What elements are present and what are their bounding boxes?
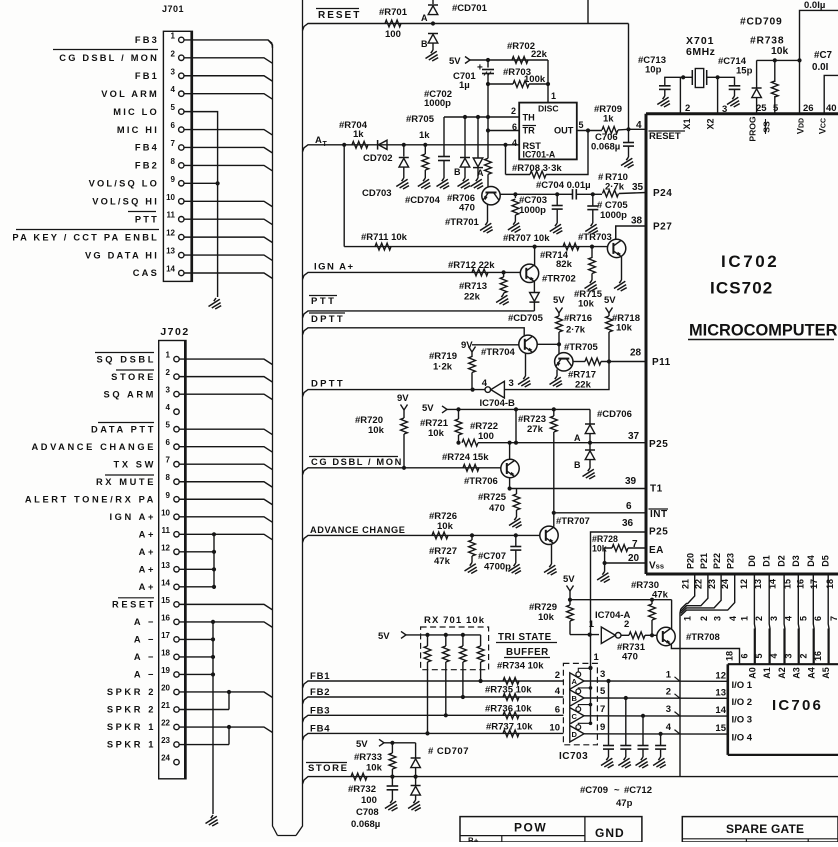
transistor TR705 [555,353,573,371]
junction R721/R722 [456,441,460,445]
svg-text:11: 11 [162,526,171,535]
table POW/GND outline [460,817,642,842]
svg-text:#CD701: #CD701 [452,3,488,14]
wire from sheet top to RESET [587,0,589,24]
svg-text:470: 470 [622,652,638,663]
wire C704 to C705 [576,193,593,195]
wire J701 pin 9 to ground bus [184,182,218,184]
svg-text:P24: P24 [653,188,672,199]
svg-text:28: 28 [630,348,642,359]
wire J701 pin 7 to bus [184,147,273,153]
junction A+ pin 13 [212,567,216,571]
junction SPKR1 [227,725,231,729]
wire buffer C output [584,715,728,717]
svg-text:B: B [572,694,578,703]
svg-text:GND: GND [595,826,625,840]
junction 5V/C701 [486,58,490,62]
junction R718/P11 [607,359,611,363]
svg-text:A −: A − [134,670,156,680]
wire TR704 collector to TR705 base node [537,343,559,345]
ground R715 [585,280,598,291]
wire C705 node down [592,194,594,228]
resistor R703 [513,81,529,88]
wire J702 pin 6 to bus [179,447,272,453]
svg-text:47k: 47k [652,590,669,601]
svg-text:470: 470 [459,203,475,214]
wire TR705 base [558,344,560,354]
junction C707 [514,533,518,537]
svg-text:#R711 10k: #R711 10k [361,232,408,243]
svg-text:VOL/SQ LO: VOL/SQ LO [89,179,159,189]
svg-text:#R724 15k: #R724 15k [442,452,489,463]
svg-text:SQ DSBL: SQ DSBL [96,354,156,364]
svg-text:#R712 22k: #R712 22k [448,260,495,271]
svg-text:35: 35 [632,182,644,193]
resistor R711 [375,243,391,250]
pin 3 stub X2 [717,77,719,113]
wire TR705 collector to P11 [573,361,585,363]
wire J701 pin 10 to bus [184,201,273,207]
IC702 left edge [645,114,648,574]
J702 pin 8 circle [174,479,179,484]
bundle tap net 2 [675,694,681,699]
svg-text:D0: D0 [747,555,757,567]
svg-text:#R738: #R738 [750,36,784,47]
wire TR708 collector from 5V [671,600,673,629]
J701 pin 2 circle [179,55,184,60]
RX701 resistor c [461,633,465,637]
supply 5V arrow R718 [606,308,613,314]
svg-text:20: 20 [161,683,170,692]
svg-text:6: 6 [555,704,560,715]
RX701 resistor a [425,633,429,637]
wire J702 pin 8 to bus [179,482,272,488]
svg-text:#TR707: #TR707 [556,516,590,527]
supply 5V arrow R716 [556,308,563,314]
svg-text:SPKR 2: SPKR 2 [107,705,156,715]
svg-text:RESET: RESET [318,10,361,21]
svg-text:#C707: #C707 [478,551,506,562]
resistor R718 [608,313,610,316]
PTT label overline [309,295,337,297]
J702 pin 22 circle [174,724,179,729]
svg-text:P20: P20 [686,553,696,569]
svg-text:I/O 3: I/O 3 [732,715,753,726]
wire R703 left [488,83,513,85]
wire T1 row [510,488,646,490]
svg-text:0.068µ: 0.068µ [351,819,380,830]
J702 pin 5 label overline [98,422,154,424]
connector J701 right edge thick [190,31,192,281]
svg-text:#R708 3·3k: #R708 3·3k [512,163,562,174]
wire TR702 emitter down [533,281,535,292]
svg-text:22k: 22k [531,49,548,60]
J702 pin 11 circle [174,532,179,537]
wire J702 pin 10 to bus [179,517,272,523]
connector J702 right edge thick [184,341,186,779]
svg-text:~: ~ [614,785,620,796]
J702 pin 18 circle [174,654,179,659]
capacitor C703 [556,194,558,205]
svg-text:FB3: FB3 [135,35,159,45]
J702 pin 5 circle [174,427,179,432]
wire J702 pin 5 to bus [179,429,272,435]
svg-text:7: 7 [166,456,171,465]
ground C702 [437,178,450,189]
svg-text:9V: 9V [397,393,409,404]
J701 pin 12 label overline [16,229,159,231]
connector J701 body [163,31,192,281]
wire DPTT horizontal [311,389,485,391]
junction R727 [470,533,474,537]
wire TR701 output [500,193,515,195]
capacitor C706 [628,129,630,142]
resistor R710 [593,193,602,195]
pin SS overline [765,119,767,134]
svg-text:1: 1 [594,652,600,663]
svg-text:C: C [572,712,578,721]
svg-text:INT: INT [650,509,668,520]
svg-text:5: 5 [600,686,606,697]
svg-text:19: 19 [161,666,170,675]
supply 5V arrow R721 [442,406,447,413]
wire TR pin6 [488,130,519,132]
J702 pin 1 circle [174,356,179,361]
ground C709 [601,757,614,768]
ground R705 [418,178,431,189]
wire 5V to R702 [488,59,548,61]
junction R707 [513,192,517,196]
wire AT tap down to R711 [343,145,345,247]
svg-text:7: 7 [171,139,176,148]
svg-text:#R735 10k: #R735 10k [485,685,532,696]
svg-text:10k: 10k [366,763,383,774]
svg-text:A1: A1 [762,667,772,679]
svg-text:P25: P25 [649,527,668,538]
capacitor C714 [718,77,735,86]
svg-text:A5: A5 [821,667,831,679]
svg-text:22k: 22k [575,380,592,391]
supply 5V arrow RX701 [401,631,406,638]
resistor R730 [651,600,653,604]
resistor R716 [558,313,560,316]
resistor R708 [506,174,531,176]
svg-text:3: 3 [666,704,671,715]
svg-text:PTT: PTT [135,214,159,224]
J701 pin 1 circle [179,37,184,42]
svg-text:6: 6 [626,501,632,512]
svg-text:1000p: 1000p [600,210,627,221]
svg-text:D3: D3 [791,555,801,567]
junction TR702 collector [533,245,537,249]
svg-text:2: 2 [166,368,171,377]
svg-text:14: 14 [166,264,175,273]
svg-text:9: 9 [166,491,171,500]
svg-text:37: 37 [628,431,640,442]
wire J702 pin 11 to bus [179,534,272,540]
svg-text:#TR705: #TR705 [564,342,599,353]
svg-text:OUT: OUT [554,126,574,136]
svg-text:0.068µ: 0.068µ [591,142,620,153]
ground C705 [585,223,598,234]
ground C7011 [636,757,649,768]
buffer B enable junction [589,686,593,690]
wire CD709/R738 top [757,59,800,61]
svg-text:#R737 10k: #R737 10k [486,722,533,733]
wire D6 partial right edge [837,574,838,664]
table SPARE GATE header line [682,838,838,840]
svg-text:IC704-B: IC704-B [480,398,516,409]
svg-text:1µ: 1µ [459,80,470,91]
wire J702 pin 3 to bus [179,394,272,400]
svg-text:#CD705: #CD705 [508,313,544,324]
junction 5V tie top [514,407,518,411]
svg-text:9: 9 [600,722,605,733]
capacitor C701 electrolytic [487,60,489,68]
ground J702 A- [206,815,219,826]
wire 5V row [447,408,590,410]
SPKR2 tie vertical [228,692,230,710]
wire J702 pin 16 to bus [179,622,272,628]
svg-text:TH: TH [523,113,536,123]
wire 5V node R729/R730 [569,591,571,605]
wire J702 pin 13 A+ [179,568,214,570]
wire IC704-B input from P11 node [504,362,609,390]
wire FB3 from bus [303,715,312,722]
svg-text:2·7k: 2·7k [566,325,586,336]
wire to C703 [515,193,557,195]
svg-text:9: 9 [171,175,176,184]
table SPARE GATE divider 2 [807,839,809,842]
buffer A enable stub [578,668,590,672]
svg-text:#TR702: #TR702 [542,274,576,285]
resistor R737 [503,730,519,737]
wire D4 to IC706 [812,574,815,664]
svg-text:3: 3 [713,616,723,621]
wire ADVANCE horizontal [311,534,540,536]
resistor R707 [514,194,516,198]
IC703 dashed box [563,663,597,744]
svg-text:SPARE GATE: SPARE GATE [726,822,804,836]
IC706 top pin 2 stub [812,629,814,665]
J702 pin 15 label overline [118,597,154,599]
svg-text:# CD707: # CD707 [428,746,469,757]
svg-text:IC703: IC703 [559,751,588,762]
ground J701 mic/vol-sq common [209,298,222,309]
svg-text:25: 25 [756,103,767,114]
svg-text:VOL ARM: VOL ARM [101,89,159,99]
wire TR704 emitter to ground [525,353,527,376]
bundle tap net 4 [675,730,681,735]
svg-text:4: 4 [512,138,517,148]
svg-text:2·7k: 2·7k [605,182,625,193]
wire FB4 horizontal [311,732,563,734]
wire D2 to IC706 [783,574,786,664]
RX701 resistor d [480,635,482,646]
resistor R717 [585,358,601,365]
table POW subdivider [460,835,585,837]
diode CD707-B [415,777,417,785]
svg-text:5V: 5V [378,631,390,642]
wire CD701 stub to sheet top [432,0,434,4]
resistor R732 [351,773,367,780]
svg-text:STORE: STORE [111,372,156,382]
J702 pin 9 circle [174,497,179,502]
ground C714 [727,96,740,107]
junction TH node [486,115,490,119]
wire TR707 collector [553,513,555,527]
J701 pin 10 circle [179,199,184,204]
diode CD706-A [589,409,591,423]
junction 5V R729 [568,598,572,602]
resistor R733 [390,741,394,745]
junction R738 top [773,58,777,62]
bundle vertical net1-4 [679,615,681,776]
svg-text:#TR708: #TR708 [686,632,720,643]
wire P23 to bundle [681,574,735,616]
svg-text:4: 4 [482,378,488,389]
svg-text:10k: 10k [538,612,555,623]
svg-text:5: 5 [579,120,584,130]
svg-text:15p: 15p [736,66,753,77]
wire J702 pin 20 to bus [179,692,272,698]
wire CG horizontal [311,467,501,469]
ground Vss [597,572,610,583]
svg-text:4: 4 [171,85,176,94]
resistor R721 [458,409,460,419]
junction IC703 enable top [588,666,592,670]
wire PTT from bus [303,311,312,318]
IC706 top pin 6 stub [753,629,755,665]
svg-text:0.0Iµ: 0.0Iµ [804,0,825,11]
J702 pin 20 circle [174,689,179,694]
svg-text:24: 24 [161,754,170,763]
wire D5 to IC706 [827,574,830,664]
wire TR706 emitter to T1 [509,477,511,489]
junction J701 pin9/gnd [216,181,220,185]
wire 5V to R722 tie [515,409,517,442]
svg-text:#R719: #R719 [429,351,457,362]
resistor R719 [471,352,473,357]
svg-text:A −: A − [134,652,156,662]
junction FB1/RX701 [479,679,483,683]
svg-text:4700p: 4700p [484,562,511,573]
junction R720/CG [402,466,406,470]
svg-text:P22: P22 [712,553,722,569]
table SPARE GATE outline [682,817,838,842]
junction Vss/R728 [603,561,607,565]
wire FB2 horizontal [311,696,563,698]
svg-text:6MHz: 6MHz [686,46,715,58]
ground R713 [496,294,509,305]
svg-text:5: 5 [798,616,808,621]
MICROCOMPUTER underline [688,339,834,341]
svg-text:38: 38 [631,216,643,227]
wire RST pin4 node [505,145,507,175]
svg-text:BUFFER: BUFFER [506,647,549,658]
svg-text:RX MUTE: RX MUTE [96,477,156,487]
wire TR708 emitter to IC706 pin18 [671,645,739,665]
svg-text:#CD704: #CD704 [405,195,441,206]
svg-text:47k: 47k [434,556,451,567]
ground C7012 [653,757,666,768]
inverter IC704-A [601,627,615,644]
wire RESET from bus [303,24,312,31]
svg-text:A: A [421,13,428,23]
IC706 body bottom edge [728,754,838,756]
ground R725 [509,517,522,528]
J702 pin 14 circle [174,584,179,589]
svg-text:A+: A+ [139,565,156,575]
svg-text:5V: 5V [553,295,565,306]
ground CD707-B [408,800,421,811]
svg-text:39: 39 [625,476,637,487]
svg-text:1: 1 [666,669,672,680]
svg-text:5: 5 [773,103,779,114]
resistor R722 [462,439,478,446]
svg-text:#R725: #R725 [478,492,507,503]
ground CD704-A [471,178,484,189]
J702 pin 2 circle [174,374,179,379]
svg-text:5V: 5V [563,574,575,585]
junction R730/R731 [650,633,654,637]
svg-text:EA: EA [649,545,664,556]
svg-text:VOL/SQ HI: VOL/SQ HI [92,196,159,206]
transistor TR702 [520,264,538,282]
svg-text:#C7: #C7 [814,50,833,61]
svg-text:4: 4 [666,722,672,733]
svg-text:CG DSBL / MON: CG DSBL / MON [311,457,403,467]
capacitor C704 series [572,189,574,199]
capacitor C7011 [642,716,644,746]
RX701 dashed box [421,627,489,670]
wire P27 pin38 [616,226,646,240]
wire Vss to ground [604,563,606,572]
svg-text:TR: TR [523,126,536,136]
wire TR703 emitter to ground [621,257,623,281]
svg-text:ICS702: ICS702 [710,279,773,298]
junction pin4/C706 [626,127,630,131]
harness bus left line [268,40,278,836]
capacitor C713 [665,77,683,86]
svg-text:RX 701 10k: RX 701 10k [424,615,485,626]
svg-text:2: 2 [685,103,690,114]
J702 pin 21 circle [174,707,179,712]
svg-text:100: 100 [361,795,377,806]
junction FB2/RX701 [461,695,465,699]
junction A+ pin 12 [212,550,216,554]
capacitor C7010 [625,698,627,746]
svg-text:#C704 0.01µ: #C704 0.01µ [536,180,591,191]
svg-text:17: 17 [161,631,170,640]
junction TR node [486,128,490,132]
wire AT from bus [303,145,312,152]
svg-text:#R734 10k: #R734 10k [497,661,544,672]
junction R733/STORE [390,775,394,779]
wire J702 pin 1 to bus [179,359,272,365]
resistor R726 [432,532,448,539]
wire P21 to bundle [681,574,708,611]
diode CD704-B [464,117,466,157]
svg-text:IC702: IC702 [721,252,779,271]
transistor TR707 [540,526,558,544]
svg-text:16: 16 [796,579,806,589]
svg-text:CD702: CD702 [363,153,393,164]
svg-text:SPKR 2: SPKR 2 [107,687,156,697]
J702 pin 12 circle [174,549,179,554]
resistor R720 [403,410,405,418]
A- tie bus vertical to ground [212,622,214,814]
